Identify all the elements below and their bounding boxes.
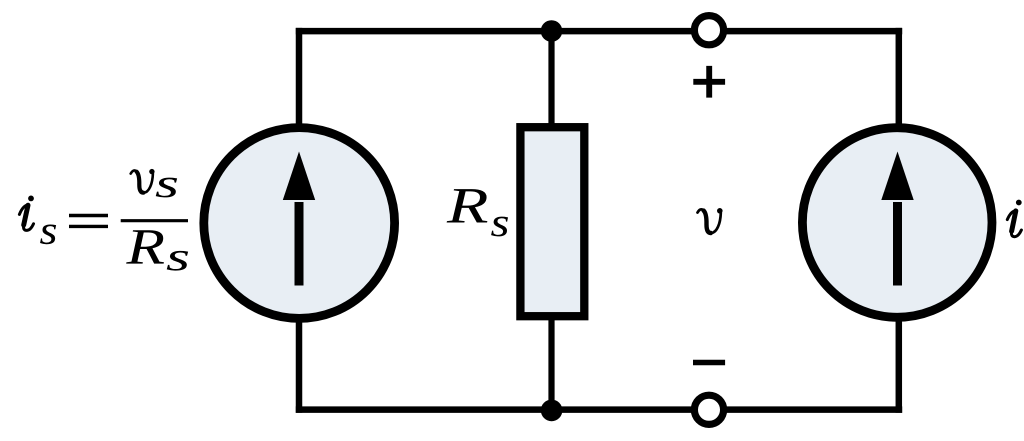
wire top horizontal [296, 28, 902, 35]
label v (voltage across terminals) [698, 208, 723, 233]
R denominator [126, 230, 164, 263]
wire right vertical top [896, 28, 903, 130]
current source I1 (right, circle) [802, 128, 992, 318]
terminal bottom (open circle) [694, 395, 723, 424]
s subscript of is [40, 224, 56, 244]
terminal top (open circle) [694, 16, 723, 45]
current source I1 arrow [881, 152, 913, 286]
fraction bar [121, 219, 188, 222]
wire left vertical bottom [296, 316, 303, 413]
plus sign label [693, 66, 725, 98]
wire right vertical bottom [896, 316, 903, 413]
wire bottom horizontal [296, 406, 902, 413]
minus sign label [693, 360, 725, 366]
current source IS1 arrow [283, 152, 315, 286]
s subscript of Rs [167, 251, 188, 271]
s subscript of vs [156, 178, 177, 198]
current source IS1 (left, circle) [204, 128, 395, 319]
v numerator [131, 169, 155, 193]
i of is [19, 196, 34, 231]
wire middle vertical bottom [548, 316, 554, 413]
equals sign [69, 214, 108, 217]
label Rs (resistor) [447, 189, 508, 236]
wire middle vertical top [548, 28, 554, 127]
label i (right source current) [1007, 200, 1021, 237]
label is = vs/Rs (left source formula) [19, 169, 188, 271]
resistor Rs (vertical box) [520, 127, 584, 316]
junction dot top node [541, 20, 563, 42]
junction dot bottom node [541, 400, 563, 422]
wire left vertical top [296, 28, 303, 130]
